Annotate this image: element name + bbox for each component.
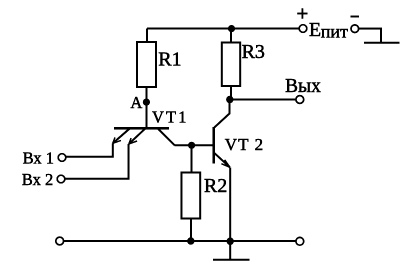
svg-text:R2: R2 — [204, 175, 227, 197]
svg-text:Е: Е — [309, 19, 321, 41]
svg-text:R3: R3 — [242, 41, 265, 63]
svg-text:Вх 2: Вх 2 — [22, 170, 53, 189]
svg-text:Вх 1: Вх 1 — [23, 148, 54, 167]
svg-text:А: А — [130, 93, 142, 112]
svg-text:VT 2: VT 2 — [225, 135, 265, 154]
svg-text:R1: R1 — [158, 48, 181, 70]
svg-text:пит: пит — [321, 22, 348, 42]
svg-text:Вых: Вых — [285, 76, 321, 97]
svg-text:VT1: VT1 — [152, 108, 189, 127]
